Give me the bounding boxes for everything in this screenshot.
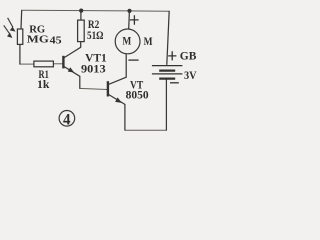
svg-text:MG: MG: [27, 33, 49, 45]
svg-text:45: 45: [50, 35, 63, 47]
svg-text:9013: 9013: [81, 61, 106, 75]
svg-text:4: 4: [63, 111, 71, 128]
svg-text:51Ω: 51Ω: [87, 28, 104, 42]
svg-text:GB: GB: [180, 48, 197, 62]
svg-text:3V: 3V: [184, 68, 197, 82]
svg-text:8050: 8050: [126, 88, 149, 102]
svg-text:M: M: [122, 34, 131, 48]
svg-text:M: M: [144, 34, 153, 48]
svg-text:1k: 1k: [37, 77, 50, 91]
